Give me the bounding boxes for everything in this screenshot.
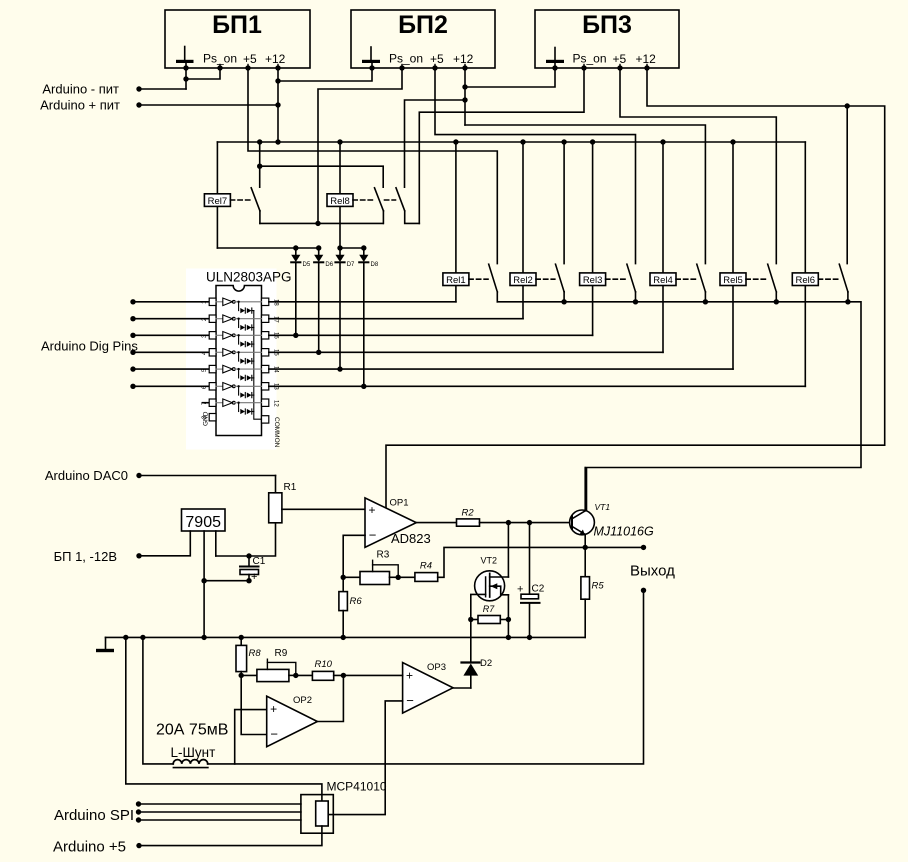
- wire Arduino dig input 6: [130, 384, 209, 389]
- node bus / Rel7 contact: [257, 139, 262, 144]
- IC U1 ULN2803APG: [186, 269, 292, 450]
- relay coil box Rel3: [580, 273, 606, 286]
- relay coil box Rel2: [510, 273, 536, 286]
- svg-text:Rel2: Rel2: [513, 275, 533, 286]
- wire 7905 gnd pin down to bus: [203, 531, 205, 637]
- wire gate net down to D2: [470, 620, 472, 663]
- node rail / Rel2: [561, 299, 566, 304]
- wire Rel2 contact lower lead: [563, 292, 565, 302]
- wire BP2 +5 to Rel3 contact: [435, 68, 636, 264]
- wire Rel4 coil vertical: [662, 142, 664, 352]
- wire U1 output row2 to Rel2 coil: [269, 318, 523, 320]
- node rail / Rel6: [845, 299, 850, 304]
- wire BP3 +5 to Rel5 contact: [620, 68, 776, 264]
- node Rel7 upper / link to Rel8: [257, 164, 262, 169]
- node bus / VT2 source: [506, 635, 511, 640]
- op-amp OP2: [267, 695, 318, 747]
- svg-text:R1: R1: [284, 482, 297, 493]
- svg-text:ULN2803APG: ULN2803APG: [206, 270, 292, 285]
- node BP1 +12 at bus: [275, 139, 280, 144]
- node D7 cathode at row5: [337, 366, 342, 371]
- node OP1 inv / R3 / R6: [341, 575, 346, 580]
- svg-text:Arduino + пит: Arduino + пит: [40, 98, 120, 113]
- wire Rel4 contact lower lead: [704, 292, 706, 302]
- U1 right pin boxes: [262, 298, 269, 406]
- node BP2 +12 branch: [462, 97, 467, 102]
- terminal Arduino - pit: [42, 82, 186, 97]
- pin stubs BP3: [584, 65, 647, 69]
- U1 left pin numbers: [202, 300, 208, 405]
- svg-text:7905: 7905: [185, 514, 221, 531]
- ground symbol inside BP2: [362, 47, 380, 68]
- node BP1 gnd at box: [183, 65, 188, 70]
- svg-text:Ps_on: Ps_on: [389, 52, 423, 66]
- switch blade Rel3: [627, 264, 636, 292]
- wire Rel5 contact lower lead: [775, 292, 777, 302]
- svg-text:12: 12: [273, 400, 279, 407]
- wire U1 output row4 to Rel4 coil: [269, 351, 663, 353]
- node 7905 gnd / C1: [201, 578, 206, 583]
- switch blade Rel7: [251, 188, 260, 211]
- svg-text:AD823: AD823: [391, 531, 431, 546]
- resistor R5: [581, 547, 604, 637]
- svg-text:Ps_on: Ps_on: [573, 52, 607, 66]
- wire OP2 non-inverting input from shunt: [235, 710, 267, 764]
- svg-text:−: −: [369, 527, 377, 542]
- svg-text:R6: R6: [350, 596, 363, 607]
- wire +12 BP3 down-left to OP1 supply: [386, 445, 885, 508]
- terminal Arduino +5: [53, 839, 142, 856]
- svg-text:+12: +12: [265, 52, 286, 66]
- wire VT2 source to gnd bus: [507, 595, 509, 638]
- op-amp OP3: [403, 662, 453, 713]
- svg-text:R4: R4: [420, 561, 432, 572]
- transistor VT1 MJ11016G: [570, 468, 654, 548]
- node BP1 +12 at box: [275, 65, 280, 70]
- U1 internal channel 2: [216, 315, 262, 330]
- svg-text:D7: D7: [347, 262, 355, 268]
- node bus / Rel2 contact feed: [561, 139, 566, 144]
- node bus / Rel1 coil: [453, 139, 458, 144]
- power supply BP3: [535, 10, 679, 68]
- wire SPI line 2: [136, 809, 301, 814]
- transistor VT2 (MOSFET): [471, 556, 509, 620]
- svg-text:OP2: OP2: [293, 695, 312, 706]
- digital potentiometer MCP41010: [301, 780, 387, 834]
- terminal Vyhod upper: [641, 545, 646, 550]
- svg-text:COMMON: COMMON: [273, 417, 280, 448]
- node VT1 emitter / R5: [583, 545, 588, 550]
- wire Rel8 first contact lower lead: [382, 211, 384, 224]
- node R9/R10 junction: [293, 673, 298, 678]
- wire ground bus: [106, 636, 586, 638]
- wire BP3 Ps_on to Rel8 lower contact: [419, 68, 584, 223]
- U1 right pin numbers: [273, 299, 279, 407]
- wire U1 output row6 to Rel6 coil: [269, 385, 806, 387]
- wire U1 output row3 to Rel3 coil: [269, 334, 593, 336]
- node BP3 Ps_on at box: [581, 65, 586, 70]
- wire Arduino dig input 5: [130, 366, 209, 371]
- U1 internal channel 7: [216, 399, 262, 414]
- svg-text:MCP41010: MCP41010: [327, 780, 387, 794]
- svg-text:Arduino Dig Pins: Arduino Dig Pins: [41, 339, 138, 354]
- wire OP1 output to R2: [416, 522, 456, 524]
- node bus / Rel2 coil: [520, 139, 525, 144]
- node R3/R4 junction: [396, 575, 401, 580]
- switch blade Rel8 first: [375, 188, 384, 211]
- wire Rel8 second contact lower lead: [405, 211, 420, 224]
- diode D8: [359, 248, 379, 386]
- wire SPI line 1: [136, 801, 301, 806]
- node BP3 +12 / Rel6 contact feed: [845, 103, 850, 108]
- node R2 out / C2 branch: [527, 520, 532, 525]
- svg-text:Выход: Выход: [630, 563, 675, 580]
- dashed link Rel4: [676, 278, 696, 280]
- node bus / Rel8 coil: [337, 139, 342, 144]
- wire OP3 inverting input to MCP wiper: [328, 701, 402, 815]
- node BP2 Ps_on at lower rail: [315, 221, 320, 226]
- wire bus right end down (Rel6 coil): [804, 142, 806, 386]
- wire BP1 Ps_on pin stub: [186, 68, 220, 79]
- svg-text:R10: R10: [315, 659, 333, 670]
- svg-text:R8: R8: [249, 648, 262, 659]
- wire BP1 +5 to Rel1 contact: [248, 68, 497, 264]
- wire U1 output row5 to Rel5 coil: [269, 368, 733, 370]
- svg-text:+5: +5: [430, 52, 444, 66]
- wire Rel7 contact lower lead: [259, 211, 261, 224]
- svg-text:+: +: [251, 571, 257, 583]
- node D6 anode: [316, 245, 321, 250]
- terminal Arduino DAC0: [45, 468, 276, 483]
- resistor R7: [471, 604, 509, 624]
- svg-text:R3: R3: [377, 550, 390, 561]
- svg-text:20А 75мВ: 20А 75мВ: [156, 722, 228, 739]
- wire Rel1 contact lower lead: [496, 292, 498, 302]
- wire shunt feed from bus: [143, 637, 173, 764]
- svg-text:D6: D6: [325, 262, 333, 268]
- node rail / Rel3: [633, 299, 638, 304]
- svg-text:R7: R7: [483, 604, 495, 614]
- node BP2 gnd at box: [369, 65, 374, 70]
- diode D6: [314, 248, 334, 352]
- svg-text:VT2: VT2: [481, 556, 498, 566]
- U1 pin 8 GND box: [202, 411, 216, 426]
- wire OP2 inverting input from R8/R9: [241, 675, 267, 734]
- dashed link Rel6: [818, 278, 838, 280]
- svg-text:−: −: [406, 693, 414, 708]
- svg-text:+12: +12: [636, 52, 657, 66]
- wire OP1 inverting input: [343, 535, 365, 577]
- U1 COMMON pin box: [262, 416, 281, 448]
- svg-text:+12: +12: [453, 52, 474, 66]
- dashed link Rel7: [230, 199, 251, 201]
- node R8 / R9 / OP2 inv: [239, 673, 244, 678]
- wire BP2 +12 vertical: [464, 68, 466, 125]
- power supply BP2: [351, 10, 495, 68]
- svg-text:MJ11016G: MJ11016G: [594, 525, 654, 539]
- node BP1 +12 / Arduino + pit: [275, 102, 280, 107]
- wire DAC0 down to R1: [275, 476, 277, 493]
- wire U1 output row1 to Rel1 coil: [269, 301, 456, 303]
- node D7 anode: [337, 245, 342, 250]
- node bus / R6: [341, 635, 346, 640]
- wire 7905 input pin: [139, 531, 190, 556]
- node BP1 +5 at box: [245, 65, 250, 70]
- node BP2 +12 / BP3 gnd link: [462, 84, 467, 89]
- ground symbol inside BP3: [546, 48, 564, 69]
- svg-text:Rel4: Rel4: [653, 275, 673, 286]
- svg-text:R5: R5: [592, 581, 605, 592]
- node bus / R8: [239, 635, 244, 640]
- wire link Rel7 to Rel8 upper: [260, 166, 384, 187]
- wire 7905 output pin down: [215, 531, 217, 556]
- node bus / Rel3 coil: [590, 139, 595, 144]
- node D6 cathode at row4: [316, 350, 321, 355]
- node C1 top: [246, 553, 251, 558]
- wire Rel3 coil vertical: [592, 142, 594, 335]
- wire Rel6 contact lower lead: [847, 292, 849, 302]
- wire BP2 +12 to BP3 gnd: [465, 68, 555, 87]
- node BP2 +5 at box: [432, 65, 437, 70]
- wire diode anode rail B (D7,D8): [340, 247, 364, 249]
- svg-text:18: 18: [273, 299, 279, 306]
- resistor R2: [457, 508, 480, 527]
- dashed link Rel5: [746, 278, 767, 280]
- U1 internal channel 5: [216, 365, 262, 380]
- node bus / shunt feed: [140, 635, 145, 640]
- resistor R6: [339, 577, 362, 637]
- resistor R1: [269, 482, 297, 523]
- svg-text:OP1: OP1: [390, 498, 409, 509]
- node BP3 +12 at box: [644, 65, 649, 70]
- wire VT2 drain from R2 node: [507, 523, 509, 577]
- wire SPI line 3: [136, 817, 301, 822]
- relay coil box Rel7: [204, 194, 230, 207]
- regulator 7905: [182, 509, 226, 531]
- node BP1 Ps_on at box: [217, 65, 222, 70]
- node bus / 7905 gnd: [201, 635, 206, 640]
- switch blade Rel1: [489, 264, 498, 292]
- U1 internal common rail: [254, 311, 262, 420]
- node BP3 +5 at box: [617, 65, 622, 70]
- ground symbol inside BP1: [176, 47, 194, 69]
- wire Arduino dig input 1: [130, 299, 209, 304]
- node D5 anode: [293, 245, 298, 250]
- switch blade Rel4: [697, 264, 706, 292]
- node D8 anode: [361, 245, 366, 250]
- relay coil box Rel8: [327, 194, 353, 207]
- pin stub input 7: [203, 402, 210, 404]
- svg-text:17: 17: [273, 316, 279, 323]
- svg-text:БП3: БП3: [582, 11, 632, 39]
- svg-text:Rel1: Rel1: [446, 275, 466, 286]
- svg-text:+: +: [517, 584, 523, 596]
- wire Rel7 contact upper lead: [259, 142, 261, 187]
- node BP3 gnd at box: [552, 65, 557, 70]
- wire BP1 +12 vertical to bus: [277, 68, 279, 142]
- node R7 left / VT2 gate: [468, 617, 473, 622]
- svg-text:Arduino +5: Arduino +5: [53, 839, 126, 856]
- node bus / C2: [527, 635, 532, 640]
- resistor R10: [296, 659, 334, 680]
- switch blade Rel5: [768, 264, 777, 292]
- wire OP2 output up to R10 node: [317, 675, 343, 721]
- wire Rel6 contact feed: [846, 106, 848, 264]
- wire BP1 gnd pin down: [185, 68, 187, 89]
- wire R2 to VT1 base: [480, 522, 570, 524]
- terminal Vyhod lower: [641, 588, 646, 593]
- wire BP1 +12 to BP2 gnd: [278, 68, 372, 81]
- wire BP2 +12 branch to Rel8 upper contact: [405, 100, 466, 187]
- node R2 out / VT2 drain branch: [506, 520, 511, 525]
- svg-text:БП 1, -12В: БП 1, -12В: [54, 549, 117, 564]
- node bus / Rel5 coil: [730, 139, 735, 144]
- dashed link Rel3: [606, 278, 627, 280]
- pin stubs BP2: [402, 65, 465, 69]
- U1 internal channel 4: [216, 349, 262, 364]
- wire R1 wiper to OP1 +: [282, 508, 365, 510]
- wire Rel5 coil vertical: [732, 142, 734, 369]
- node BP2 Ps_on at box: [399, 65, 404, 70]
- svg-text:Rel8: Rel8: [330, 196, 350, 207]
- svg-text:C1: C1: [253, 556, 266, 567]
- svg-text:+: +: [270, 702, 277, 716]
- node rail / Rel5: [774, 299, 779, 304]
- wire Rel3 contact lower lead: [635, 292, 637, 302]
- wire BP2 +12 to Rel4 contact: [465, 125, 705, 264]
- op-amp OP1 AD823: [365, 498, 431, 548]
- svg-text:Rel7: Rel7: [208, 196, 228, 207]
- svg-text:−: −: [270, 727, 278, 742]
- wire Rel2 coil vertical: [522, 142, 524, 319]
- wire BP3 +12 to far right vertical: [647, 68, 885, 445]
- diode D5: [291, 248, 311, 335]
- svg-text:Ps_on: Ps_on: [203, 52, 237, 66]
- node C1 bottom: [246, 578, 251, 583]
- svg-text:Arduino - пит: Arduino - пит: [42, 82, 119, 97]
- wire R1 bottom to 7905 output: [216, 523, 276, 556]
- resistor R9 with wiper: [241, 648, 296, 682]
- wire Rel8 coil vertical: [339, 142, 341, 248]
- capacitor C2: [517, 523, 545, 638]
- diode D7: [335, 248, 355, 369]
- node rail / Rel4: [703, 299, 708, 304]
- resistor R3 with wiper: [343, 550, 398, 585]
- dashed link Rel2: [536, 278, 555, 280]
- wire diode anode rail A (D5,D6): [217, 247, 318, 249]
- ground symbol: [96, 637, 114, 652]
- wire Arduino dig input 4: [130, 350, 209, 355]
- node R7 right: [506, 617, 511, 622]
- svg-text:C2: C2: [532, 584, 545, 595]
- node BP1 gnd/Ps_on join: [183, 76, 188, 81]
- svg-text:Arduino DAC0: Arduino DAC0: [45, 468, 128, 483]
- relay coil box Rel4: [650, 273, 676, 286]
- capacitor C1: [240, 556, 266, 583]
- U1 internal channel 1: [216, 298, 262, 313]
- wire Rel2 contact feed from bus: [563, 142, 565, 264]
- svg-text:БП1: БП1: [212, 11, 262, 39]
- relay coil box Rel6: [792, 273, 818, 286]
- svg-text:R2: R2: [462, 508, 475, 519]
- node bus / Rel4 coil: [660, 139, 665, 144]
- node OP2 out / OP3 +: [341, 673, 346, 678]
- svg-text:R9: R9: [275, 648, 288, 659]
- wire R4 to emitter feedback: [438, 547, 644, 577]
- wire Vyhod return to shunt: [208, 590, 644, 764]
- resistor R4: [398, 561, 437, 582]
- svg-text:+5: +5: [243, 52, 257, 66]
- wire MCP bottom terminal to Arduino +5: [139, 826, 322, 846]
- wire C1 bottom to 7905 gnd: [204, 580, 249, 582]
- dashed link Rel8: [353, 199, 374, 201]
- svg-text:+: +: [406, 669, 413, 683]
- svg-text:+5: +5: [613, 52, 627, 66]
- svg-text:Rel3: Rel3: [583, 275, 603, 286]
- switch blade Rel2: [556, 264, 565, 292]
- svg-text:VT1: VT1: [595, 502, 611, 512]
- terminal Arduino + pit: [40, 98, 278, 113]
- wire Rel7/Rel8 lower contact rail: [260, 222, 383, 224]
- svg-text:+: +: [369, 503, 376, 517]
- wire R10 to OP3 +: [334, 674, 403, 676]
- switch blade Rel8 second: [396, 188, 405, 211]
- wire Rel1 coil vertical: [455, 142, 457, 302]
- wire +12 bus: [217, 141, 805, 143]
- dashed link Rel1: [469, 278, 488, 280]
- svg-text:БП2: БП2: [398, 11, 448, 39]
- diode D2: [462, 658, 493, 688]
- resistor R8: [236, 637, 261, 675]
- node D8 cathode at row6: [361, 384, 366, 389]
- pin stubs BP1: [220, 65, 278, 69]
- U1 left pin boxes 1-7: [209, 298, 216, 406]
- power supply BP1: [165, 10, 310, 68]
- node bus / shunt-left sense: [123, 635, 128, 640]
- svg-text:Rel6: Rel6: [796, 275, 816, 286]
- wire relay output rail: [497, 302, 861, 511]
- svg-text:OP3: OP3: [427, 662, 446, 673]
- node BP2 +12 at box: [462, 65, 467, 70]
- U1 internal channel 6: [216, 383, 262, 398]
- svg-text:Rel5: Rel5: [723, 275, 743, 286]
- svg-text:Arduino SPI: Arduino SPI: [54, 807, 134, 824]
- wire MCP top terminal from bus: [126, 637, 322, 801]
- svg-text:D8: D8: [371, 262, 379, 268]
- wire BP2 Ps_on down-left: [318, 68, 402, 223]
- node BP1 +12 / BP2 gnd link: [275, 78, 280, 83]
- dashed link Rel8 second blade: [385, 199, 396, 201]
- shunt L (20A 75mV): [173, 760, 208, 768]
- wire Arduino dig input 2: [130, 316, 209, 321]
- U1 internal channel 3: [216, 332, 262, 347]
- wire D2 anode to OP3 output: [453, 687, 471, 689]
- node D5 cathode at row3: [293, 333, 298, 338]
- terminal BP1 -12V: [54, 549, 142, 564]
- svg-text:D5: D5: [303, 262, 311, 268]
- svg-text:D2: D2: [480, 658, 492, 669]
- relay coil box Rel1: [443, 273, 469, 286]
- relay coil box Rel5: [720, 273, 746, 286]
- wire Arduino dig input 3: [130, 333, 209, 338]
- svg-text:L-Шунт: L-Шунт: [171, 745, 216, 760]
- switch blade Rel6: [839, 264, 848, 292]
- wire bus left end down to diode rail: [216, 142, 218, 248]
